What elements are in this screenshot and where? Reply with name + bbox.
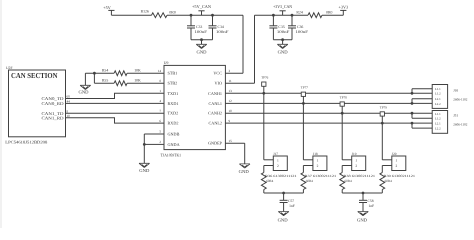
wire GNDB to GNDA join — [144, 133, 152, 135]
svg-text:STB1: STB1 — [168, 71, 178, 76]
svg-text:LPC54618J512BD208: LPC54618J512BD208 — [5, 140, 47, 145]
wire VCC riser — [242, 15, 244, 73]
wire J16 L2.1 branch — [411, 99, 413, 104]
svg-text:2: 2 — [355, 164, 357, 168]
svg-text:J16: J16 — [453, 88, 458, 92]
svg-text:10: 10 — [229, 109, 233, 113]
svg-text:60R4: 60R4 — [345, 179, 352, 183]
wire CANH2 bus — [225, 112, 432, 114]
ground below C58 — [358, 212, 369, 216]
wire +5V to R126 — [111, 14, 151, 16]
svg-text:GNDB: GNDB — [168, 132, 180, 137]
capacitor C58 1nF — [362, 193, 364, 200]
svg-text:14: 14 — [158, 69, 162, 73]
svg-text:R38 61300211121: R38 61300211121 — [344, 174, 376, 178]
svg-text:GND: GND — [239, 169, 250, 174]
resistor R37 60R4 — [301, 173, 306, 190]
svg-text:L1.2: L1.2 — [435, 92, 441, 96]
svg-text:1: 1 — [277, 158, 279, 162]
svg-text:RXD1: RXD1 — [168, 101, 179, 106]
svg-text:100nF: 100nF — [277, 30, 289, 34]
wire VCC stub — [225, 72, 243, 74]
wire GNDB stub — [153, 133, 165, 135]
svg-text:GND: GND — [79, 89, 90, 94]
svg-text:L2.2: L2.2 — [435, 126, 441, 130]
svg-text:J31: J31 — [453, 114, 458, 118]
svg-text:TXD2: TXD2 — [168, 111, 179, 116]
capacitor C34 100nF — [212, 15, 214, 26]
page border — [0, 0, 2, 228]
wire GNDEP — [225, 142, 244, 144]
svg-text:C34: C34 — [218, 25, 224, 29]
svg-text:TXD1: TXD1 — [168, 91, 179, 96]
svg-text:VIO: VIO — [215, 81, 222, 86]
svg-text:GNDEP: GNDEP — [208, 141, 223, 146]
svg-text:60R4: 60R4 — [266, 179, 273, 183]
capacitor C35 100nF — [272, 15, 274, 26]
wire CAN0_TD to TXD1 — [66, 93, 165, 98]
svg-text:STB2: STB2 — [168, 81, 178, 86]
svg-text:60R4: 60R4 — [385, 179, 392, 183]
svg-text:VCC: VCC — [213, 71, 222, 76]
wire drop to J20 — [381, 123, 383, 160]
svg-text:10K: 10K — [134, 68, 141, 72]
svg-text:TP76: TP76 — [261, 76, 268, 80]
svg-text:R24: R24 — [296, 11, 302, 15]
ground U9 GNDA — [143, 144, 145, 163]
node C57 junction — [282, 192, 285, 195]
node cap gnd junction — [200, 38, 203, 41]
node C35 top — [272, 14, 275, 17]
svg-text:R126: R126 — [141, 10, 149, 14]
svg-text:TP77: TP77 — [301, 86, 308, 90]
connector J31 2606-1102 — [432, 111, 447, 134]
svg-text:10K: 10K — [134, 78, 141, 82]
svg-text:C57: C57 — [288, 199, 294, 203]
capacitor C33 100nF — [190, 15, 192, 26]
node J31 CANH2 branch — [411, 112, 414, 115]
svg-text:12: 12 — [229, 99, 233, 103]
wire R126 to +5V_CAN rail — [167, 14, 243, 16]
svg-text:GND: GND — [139, 168, 150, 173]
node C58 junction — [362, 192, 365, 195]
svg-text:2: 2 — [317, 164, 319, 168]
svg-text:+3V3_CAN: +3V3_CAN — [273, 4, 293, 9]
svg-text:U9: U9 — [164, 61, 169, 65]
wire CANH1 bus — [225, 92, 432, 94]
wire drop to J19 — [341, 113, 343, 160]
svg-text:C36: C36 — [297, 25, 303, 29]
svg-text:13: 13 — [229, 89, 233, 93]
svg-text:15: 15 — [229, 139, 233, 143]
wire CAN0_RD to RXD1 — [66, 102, 165, 104]
svg-text:2606-1102: 2606-1102 — [453, 123, 468, 127]
svg-text:CANL2: CANL2 — [209, 121, 223, 126]
svg-text:2: 2 — [277, 164, 279, 168]
svg-text:L2.1: L2.1 — [435, 97, 441, 101]
svg-text:TJA1059TK1: TJA1059TK1 — [161, 153, 182, 158]
ground below C35 C36 — [282, 40, 284, 45]
svg-text:TP78: TP78 — [340, 95, 347, 99]
wire J31 L2.2 branch — [411, 123, 413, 128]
wire GNDA stub — [153, 143, 165, 145]
svg-text:L1.1: L1.1 — [435, 112, 441, 116]
wire drop to J17 — [263, 93, 265, 160]
svg-text:11: 11 — [229, 79, 233, 83]
svg-text:R37 61300211121: R37 61300211121 — [305, 174, 337, 178]
svg-text:R36 61300211121: R36 61300211121 — [265, 174, 297, 178]
svg-text:1nF: 1nF — [289, 204, 295, 208]
node R55 branch — [93, 72, 96, 75]
svg-text:CANH1: CANH1 — [208, 91, 222, 96]
svg-text:C33: C33 — [196, 25, 202, 29]
wire R55 branch down — [93, 73, 95, 83]
svg-text:GNDA: GNDA — [168, 142, 180, 147]
svg-text:1: 1 — [355, 158, 357, 162]
ground U9 GNDEP — [239, 164, 250, 168]
node cap2 gnd junction — [281, 38, 284, 41]
wire C33 C34 bottoms — [191, 39, 213, 41]
wire CAN1_RD to RXD2 — [66, 118, 165, 123]
wire CANL2 bus — [225, 122, 432, 124]
svg-text:C35: C35 — [278, 25, 284, 29]
wire VIO riser — [254, 15, 256, 83]
wire drop to J18 — [302, 103, 304, 159]
resistor R126 0R0 — [152, 13, 168, 18]
ground below C57 — [278, 212, 289, 216]
resistor R39 60R4 — [380, 173, 385, 190]
svg-text:GND: GND — [357, 217, 368, 222]
svg-text:CANH2: CANH2 — [208, 111, 222, 116]
svg-text:100nF: 100nF — [216, 30, 228, 34]
svg-text:100nF: 100nF — [195, 30, 207, 34]
connector J16 2606-1102 — [432, 85, 447, 109]
svg-text:0R0: 0R0 — [169, 11, 175, 15]
resistor R24 0R0 — [308, 13, 322, 18]
wire VIO stub — [225, 82, 254, 84]
svg-text:1nF: 1nF — [369, 204, 375, 208]
resistor R38 60R4 — [340, 173, 345, 190]
wire CANL1 bus — [225, 102, 432, 104]
svg-text:1: 1 — [396, 158, 398, 162]
wire STB1 net — [85, 72, 114, 74]
svg-text:1: 1 — [317, 158, 319, 162]
node C34 top — [211, 14, 214, 17]
wire J16 L1.1 branch — [411, 89, 413, 94]
ground for R54 R55 — [80, 85, 91, 89]
resistor R54 10K — [114, 71, 127, 76]
wire R55 to STB2 — [127, 82, 164, 84]
svg-text:+3V3: +3V3 — [339, 5, 349, 10]
node J16 CANH1 branch — [411, 92, 414, 95]
node C36 top — [291, 14, 294, 17]
wire R54 to STB1 — [127, 72, 164, 74]
svg-text:+5V: +5V — [103, 5, 110, 10]
svg-text:CANL1: CANL1 — [209, 101, 223, 106]
svg-text:CAN1_RD: CAN1_RD — [42, 116, 64, 121]
svg-text:L1.1: L1.1 — [435, 87, 441, 91]
node J31 CANL2 branch — [411, 122, 414, 125]
resistor R36 60R4 — [261, 173, 266, 190]
resistor R55 10K — [114, 81, 127, 86]
wire C35 C36 bottoms — [273, 39, 292, 41]
wire J31 L1.2 branch — [411, 113, 413, 118]
svg-text:C58: C58 — [368, 199, 374, 203]
svg-text:L1.2: L1.2 — [435, 117, 441, 121]
node J16 CANL1 branch — [411, 102, 414, 105]
svg-text:CAN SECTION: CAN SECTION — [11, 71, 58, 80]
capacitor C57 1nF — [283, 193, 285, 200]
node GNDA junction — [143, 143, 146, 146]
svg-text:+5V_CAN: +5V_CAN — [192, 4, 212, 9]
svg-text:100nF: 100nF — [296, 30, 308, 34]
svg-text:R39 61300211121: R39 61300211121 — [384, 174, 416, 178]
svg-text:GND: GND — [197, 50, 208, 55]
svg-text:L2.2: L2.2 — [435, 102, 441, 106]
svg-text:R54: R54 — [102, 68, 108, 72]
svg-text:60R4: 60R4 — [306, 179, 313, 183]
svg-text:2606-1102: 2606-1102 — [453, 97, 468, 101]
svg-text:GND: GND — [278, 50, 289, 55]
svg-text:CAN0_RD: CAN0_RD — [42, 101, 64, 106]
node C33 top — [190, 14, 193, 17]
wire +3V3_CAN rail — [255, 14, 309, 16]
wire termination rail 2 — [342, 192, 382, 194]
wire termination rail 1 — [264, 192, 304, 194]
svg-text:R55: R55 — [102, 78, 108, 82]
svg-text:L2.1: L2.1 — [435, 122, 441, 126]
wire CAN1_TD to TXD2 — [66, 112, 165, 114]
ground below C33 C34 — [201, 40, 203, 45]
capacitor C36 100nF — [291, 15, 293, 26]
svg-text:U2F: U2F — [6, 66, 13, 70]
svg-text:GND: GND — [278, 217, 289, 222]
svg-text:TP79: TP79 — [380, 105, 387, 109]
svg-text:RXD2: RXD2 — [168, 121, 179, 126]
wire R24 to +3V3 — [322, 14, 343, 16]
svg-text:2: 2 — [396, 164, 398, 168]
svg-text:0R0: 0R0 — [326, 11, 332, 15]
